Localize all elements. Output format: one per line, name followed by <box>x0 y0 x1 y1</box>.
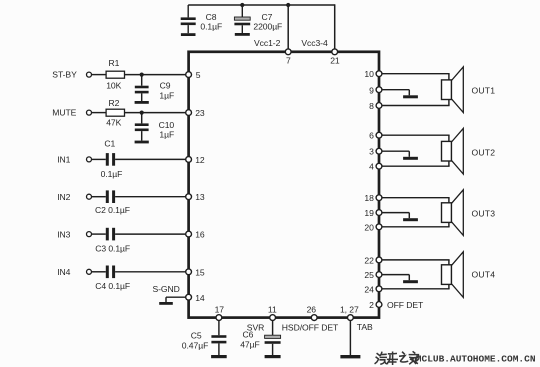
svg-text:3: 3 <box>369 147 374 157</box>
pin 17 <box>215 304 225 320</box>
capacitor C7 (electrolytic) <box>234 5 250 33</box>
svg-text:C4 0.1µF: C4 0.1µF <box>95 281 130 291</box>
wire Vcc top rail <box>188 4 335 6</box>
svg-text:23: 23 <box>195 108 205 118</box>
wire pin to speaker OUT2 bottom <box>382 165 450 167</box>
pin 1,27 TAB <box>340 304 359 320</box>
svg-text:1µF: 1µF <box>159 90 174 100</box>
wire R2 to pin 23 <box>125 112 187 114</box>
svg-text:10K: 10K <box>106 81 121 91</box>
ground under C10 <box>135 141 149 144</box>
pin 16 <box>186 230 205 240</box>
pin 3 <box>369 147 382 157</box>
wire TAB to ground <box>349 320 351 355</box>
pin 9 <box>369 85 382 95</box>
svg-text:7: 7 <box>286 55 291 65</box>
svg-text:15: 15 <box>195 267 205 277</box>
svg-text:22: 22 <box>364 255 374 265</box>
pin 6 <box>369 131 382 141</box>
wire IN3 to cap <box>91 233 106 235</box>
svg-text:MUTE: MUTE <box>52 108 76 118</box>
pin 18 <box>364 193 382 203</box>
wire MUTE to R2 <box>91 112 106 114</box>
resistor R2 <box>106 98 124 127</box>
pin 23 <box>186 108 205 118</box>
svg-text:S-GND: S-GND <box>153 284 180 294</box>
pin 2 <box>369 300 382 310</box>
svg-text:0.47µF: 0.47µF <box>182 340 208 350</box>
capacitor C5 <box>182 320 227 355</box>
ground OUT4 return <box>403 280 418 283</box>
speaker OUT3 <box>442 190 464 236</box>
svg-text:9: 9 <box>369 85 374 95</box>
wire drop to pin 7 <box>287 5 289 51</box>
wire pin to speaker OUT1 bottom <box>382 105 450 107</box>
pin 4 <box>369 162 382 172</box>
svg-text:IN3: IN3 <box>57 229 70 239</box>
svg-text:OUT3: OUT3 <box>472 208 496 218</box>
junction at pin-7 drop <box>286 3 290 7</box>
svg-text:16: 16 <box>195 230 205 240</box>
svg-text:1µF: 1µF <box>159 130 174 140</box>
svg-text:C5: C5 <box>191 331 202 341</box>
wire pin to speaker OUT3 bottom <box>382 226 450 228</box>
wire pin to speaker OUT2 top <box>382 134 450 136</box>
svg-text:OUT4: OUT4 <box>472 269 496 279</box>
wire pin to speaker OUT1 top <box>382 73 450 75</box>
svg-text:24: 24 <box>364 284 374 294</box>
svg-text:C6: C6 <box>243 330 254 340</box>
pin 15 <box>186 267 205 277</box>
ground under C8 <box>181 33 196 36</box>
pin 25 <box>364 270 382 280</box>
pin 20 <box>364 222 382 232</box>
pin 5 <box>186 70 201 80</box>
capacitor C3 <box>106 228 115 241</box>
speaker OUT1 <box>442 67 464 113</box>
ground OUT3 return <box>403 218 418 221</box>
wire mid pin to ground (OUT1) <box>382 89 409 91</box>
wire IN4 to cap <box>91 271 106 273</box>
speaker OUT4 <box>442 252 464 298</box>
capacitor C9 <box>135 75 174 101</box>
svg-text:17: 17 <box>215 304 225 314</box>
pin 12 <box>186 155 205 165</box>
svg-text:6: 6 <box>369 131 374 141</box>
svg-text:TAB: TAB <box>357 322 373 332</box>
pin 13 <box>186 192 205 202</box>
svg-text:OFF DET: OFF DET <box>387 300 424 310</box>
capacitor C2 <box>106 190 115 203</box>
svg-text:0.1µF: 0.1µF <box>101 169 123 179</box>
capacitor C1 <box>106 153 115 166</box>
svg-text:47K: 47K <box>106 118 121 128</box>
svg-text:5: 5 <box>196 70 201 80</box>
svg-text:Vcc1-2: Vcc1-2 <box>254 38 281 48</box>
svg-text:47µF: 47µF <box>240 340 259 350</box>
wire mid pin to ground (OUT4) <box>382 274 409 276</box>
svg-text:IN1: IN1 <box>57 155 70 165</box>
pin 19 <box>364 208 382 218</box>
node IN2 terminal <box>57 192 91 202</box>
wire R1 to pin 5 <box>125 74 187 76</box>
svg-text:2: 2 <box>369 300 374 310</box>
wire pin to speaker OUT4 bottom <box>382 288 450 290</box>
svg-text:18: 18 <box>364 193 374 203</box>
node IN4 terminal <box>57 267 91 277</box>
node IN3 terminal <box>57 229 91 239</box>
svg-text:C1: C1 <box>104 138 115 148</box>
junction ST-BY / C9 <box>140 73 144 77</box>
svg-text:11: 11 <box>268 304 277 314</box>
wire cap to pin 12 <box>115 158 186 160</box>
ground S-GND <box>159 302 173 305</box>
svg-text:C3 0.1µF: C3 0.1µF <box>95 244 130 254</box>
wire IN1 to cap <box>91 158 106 160</box>
node IN1 terminal <box>57 155 91 165</box>
svg-text:20: 20 <box>364 222 374 232</box>
node ST-BY terminal <box>52 70 91 80</box>
svg-text:13: 13 <box>195 192 205 202</box>
svg-text:19: 19 <box>364 208 374 218</box>
svg-text:10: 10 <box>364 69 374 79</box>
junction MUTE / C10 <box>140 111 144 115</box>
svg-text:HSD/OFF DET: HSD/OFF DET <box>282 323 339 333</box>
svg-text:4: 4 <box>369 162 374 172</box>
svg-text:0.1µF: 0.1µF <box>200 21 222 31</box>
ground under C6 <box>265 355 281 358</box>
svg-text:IN4: IN4 <box>57 267 70 277</box>
pin 7 <box>285 49 291 66</box>
svg-text:IN2: IN2 <box>57 192 70 202</box>
ground TAB <box>340 355 360 358</box>
wire mid pin to ground (OUT2) <box>382 150 409 152</box>
ground OUT2 return <box>403 157 418 160</box>
junction at C7 top <box>240 3 244 7</box>
wire pin to speaker OUT4 top <box>382 259 450 261</box>
svg-text:21: 21 <box>330 55 340 65</box>
svg-text:1, 27: 1, 27 <box>340 304 359 314</box>
svg-text:R2: R2 <box>109 98 120 108</box>
svg-text:ST-BY: ST-BY <box>52 70 77 80</box>
wire pin to speaker OUT3 top <box>382 197 450 199</box>
pin 11 SVR <box>268 304 277 320</box>
wire IN2 to cap <box>91 196 106 198</box>
wire ST-BY to R1 <box>91 74 106 76</box>
ground under C5 <box>211 355 227 358</box>
pin 21 <box>330 49 340 66</box>
capacitor C10 <box>135 113 175 141</box>
svg-text:14: 14 <box>195 293 205 303</box>
svg-text:C2 0.1µF: C2 0.1µF <box>95 205 130 215</box>
wire drop to pin 21 <box>334 4 336 51</box>
svg-text:OUT1: OUT1 <box>472 86 496 96</box>
ground under C7 <box>235 33 250 36</box>
ground OUT1 return <box>403 95 418 98</box>
svg-text:Vcc3-4: Vcc3-4 <box>301 38 328 48</box>
capacitor C8 <box>181 5 196 33</box>
watermark chinese logo (drawn glyphs) <box>375 352 418 364</box>
ground under C9 <box>135 101 149 104</box>
svg-text:C7: C7 <box>262 12 273 22</box>
capacitor C6 (electrolytic) <box>240 320 280 355</box>
pin 26 HSD/OFF DET <box>307 304 318 320</box>
pin 8 <box>369 101 382 111</box>
svg-text:C9: C9 <box>160 81 171 91</box>
pin 22 <box>364 255 382 265</box>
wire pin 14 to ground <box>166 296 186 298</box>
wire cap to pin 15 <box>115 271 186 273</box>
node MUTE terminal <box>52 108 91 118</box>
op-amp IC U1 body <box>189 52 379 318</box>
svg-text:8: 8 <box>369 101 374 111</box>
svg-text:12: 12 <box>195 155 205 165</box>
pin 10 <box>364 69 382 79</box>
pin 14 <box>186 293 205 303</box>
svg-text:R1: R1 <box>109 58 120 68</box>
resistor R1 <box>106 58 124 91</box>
wire cap to pin 16 <box>115 233 186 235</box>
wire cap to pin 13 <box>115 196 186 198</box>
speaker OUT2 <box>442 128 464 174</box>
svg-text:25: 25 <box>364 270 374 280</box>
svg-text:OUT2: OUT2 <box>472 147 496 157</box>
capacitor C4 <box>106 266 115 279</box>
pin 24 <box>364 284 382 294</box>
svg-text:MCLUB.AUTOHOME.COM.CN: MCLUB.AUTOHOME.COM.CN <box>416 354 536 365</box>
svg-text:26: 26 <box>307 304 317 314</box>
wire mid pin to ground (OUT3) <box>382 212 409 214</box>
svg-text:2200µF: 2200µF <box>253 21 282 31</box>
